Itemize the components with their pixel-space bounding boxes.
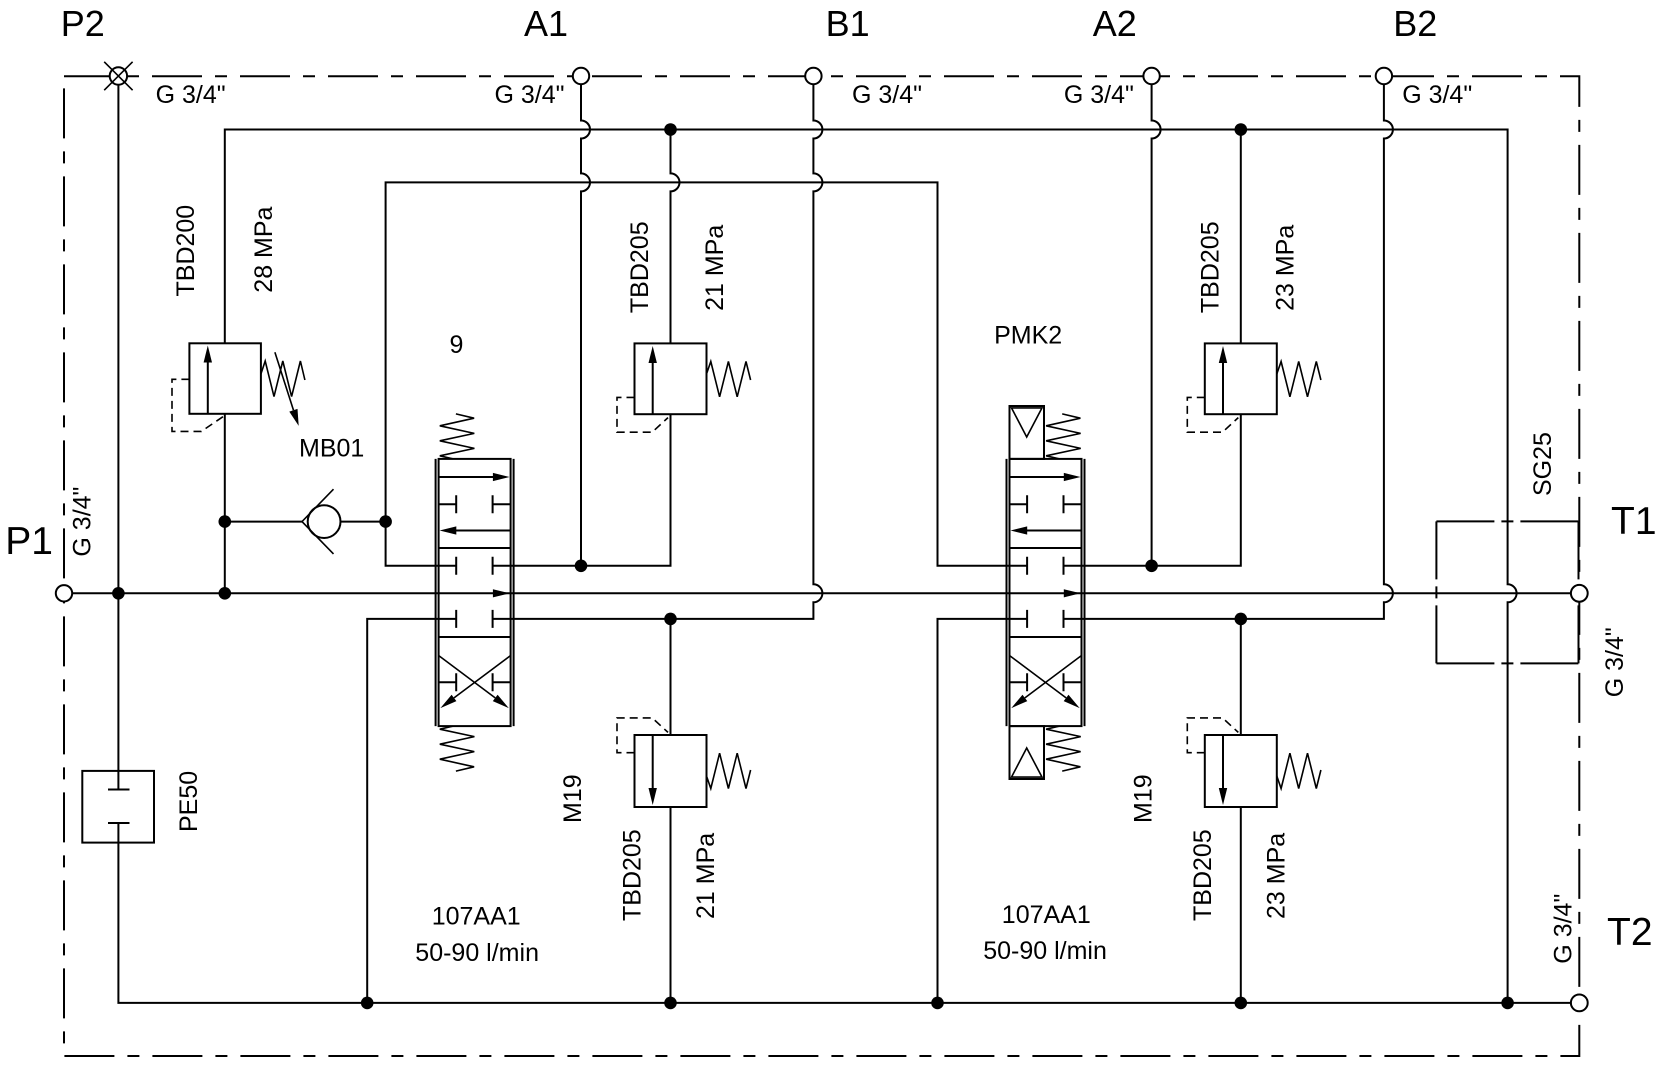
body [439,459,511,726]
wire: port A1 drop line [581,85,590,566]
port P1 [56,585,72,601]
pilot actuator top [1010,406,1045,459]
port A1 [573,68,589,84]
svg-text:TBD205: TBD205 [1189,829,1217,921]
relief valve TBD205 21 MPa M19 (port B1, lower) [617,718,751,807]
port A2 [1143,68,1159,84]
body [1010,459,1082,726]
port T2 [1571,995,1588,1012]
port T1 [1571,585,1588,602]
centring spring bottom [440,726,475,771]
node: TBD200 drop x P1 gallery [219,587,232,600]
node: valve 2 T-return on bottom rail [931,997,944,1010]
gauge block SG25 [1436,521,1578,663]
svg-text:B2: B2 [1393,3,1437,44]
node: lower TBD205 23MPa on bottom rail [1235,997,1248,1010]
position c: crossed flow arrows [1010,656,1082,698]
wire: valve 1 B-port branch to lower TBD205 [670,619,672,735]
relief valve TBD205 23 MPa M19 (port B2, lower) [1187,718,1321,807]
node: TBD205 23MPa outlet on tank rail [1235,123,1248,136]
svg-text:107AA1: 107AA1 [432,902,521,930]
node: lower TBD205 21MPa on bottom rail [664,997,677,1010]
side rails [1007,459,1085,726]
svg-text:G 3/4": G 3/4" [1064,81,1134,109]
wire: TBD205 23MPa outlet riser to tank rail [1240,130,1242,344]
node: valve 2 B-line x lower TBD205 [1235,613,1248,626]
svg-text:28 MPa: 28 MPa [250,206,278,292]
port P2 (plugged) [104,62,132,90]
node: valve 1 B-line x lower TBD205 [664,613,677,626]
wire: feed loop from node to both valve P ports (bridge L2) [386,182,1010,565]
wire: P1 main pressure gallery [73,592,1571,594]
svg-text:107AA1: 107AA1 [1002,901,1091,929]
svg-text:PMK2: PMK2 [994,322,1062,350]
svg-text:TBD200: TBD200 [172,205,200,297]
wire: P2 drop line to PE50 [117,85,119,790]
svg-text:A2: A2 [1093,3,1137,44]
svg-text:G 3/4": G 3/4" [1402,81,1472,109]
svg-text:G 3/4": G 3/4" [1601,627,1629,697]
pilot spring bottom [1046,726,1081,771]
svg-text:P1: P1 [5,520,53,563]
node: TBD205 21MPa outlet on tank rail [664,123,677,136]
svg-text:G 3/4": G 3/4" [852,81,922,109]
relief valve TBD205 23 MPa (port A2) [1187,343,1321,432]
position b (centre): closed ports + bypass arrow [1010,557,1082,575]
relief valve TBD205 21 MPa (port A1) [617,343,751,432]
svg-text:G 3/4": G 3/4" [69,487,97,557]
wire: valve 2 A-port line to TBD205 relief [1082,414,1241,566]
wire: valve 1 A-port line to TBD205 relief [511,414,671,566]
svg-text:T1: T1 [1611,500,1657,543]
svg-text:50-90 l/min: 50-90 l/min [983,937,1107,965]
node: A1 junction on valve 1 A-line [575,560,588,573]
wire: bottom tank rail to T2 [118,823,1570,1003]
svg-text:PE50: PE50 [175,771,203,832]
position a: flow arrows [1010,476,1065,478]
position b (centre): closed ports + bypass arrow [439,557,511,575]
node: P2 line x P1 gallery [112,587,125,600]
svg-text:A1: A1 [524,3,568,44]
position a: flow arrows [439,476,494,478]
wire: port A2 drop line [1152,85,1161,566]
svg-text:B1: B1 [826,3,870,44]
thread size labels [69,81,1630,964]
svg-text:TBD205: TBD205 [626,221,654,313]
wire: tank rail L1 (relief valve outlets) with right drop to bottom rail [225,130,1517,1003]
wire: valve 1 T-return to bottom rail [367,619,438,1003]
svg-text:T2: T2 [1607,911,1653,954]
svg-text:M19: M19 [559,774,587,823]
directional valve 107AA1 no.2 PMK2 [1007,406,1085,779]
wire: port B2 drop line to valve 2 B-port [1082,85,1393,619]
svg-text:M19: M19 [1129,774,1157,823]
centring spring top [440,414,475,459]
wire: lower TBD205 23MPa outlet to bottom rail [1240,807,1242,1003]
wire: check valve MB01 inlet [225,521,302,523]
svg-text:TBD205: TBD205 [1196,221,1224,313]
svg-text:TBD205: TBD205 [619,829,647,921]
wire: check valve MB01 outlet to node [341,521,386,523]
wire: port B1 drop line to valve 1 B-port [511,85,823,619]
svg-text:P2: P2 [61,3,105,44]
svg-text:21 MPa: 21 MPa [692,833,720,919]
wire: lower TBD205 21MPa outlet to bottom rail [670,807,672,1003]
pilot actuator bottom [1010,726,1045,779]
wire: TBD200 outlet drop to P1 line [224,414,226,594]
side rails [436,459,514,726]
svg-text:SG25: SG25 [1529,432,1557,496]
wire: valve 2 B-port branch to lower TBD205 [1240,619,1242,735]
directional valve 107AA1 no.1 [436,414,514,771]
check valve MB01 [302,489,341,554]
relief valve TBD200 28 MPa [172,343,305,431]
node: TBD200 drop x check valve inlet [219,515,232,528]
svg-text:G 3/4": G 3/4" [1550,894,1578,964]
svg-text:23 MPa: 23 MPa [1262,833,1290,919]
position c: crossed flow arrows [439,656,511,698]
svg-text:MB01: MB01 [299,435,364,463]
port B1 [805,68,821,84]
svg-text:G 3/4": G 3/4" [156,81,226,109]
node: A2 junction on valve 2 A-line [1145,560,1158,573]
wire: valve 2 T-return to bottom rail [938,619,1010,1003]
svg-text:G 3/4": G 3/4" [495,81,565,109]
node: check valve outlet feed node [379,515,392,528]
wire: TBD205 21MPa outlet riser to tank rail [671,130,680,344]
port B2 [1376,68,1392,84]
node: valve 1 T-return on bottom rail [361,997,374,1010]
plug PE50 [82,771,154,843]
svg-text:9: 9 [450,331,464,359]
svg-text:50-90 l/min: 50-90 l/min [415,939,539,967]
svg-text:21 MPa: 21 MPa [701,225,729,311]
svg-text:23 MPa: 23 MPa [1271,225,1299,311]
pilot spring top [1046,414,1081,459]
node: tank drop on bottom rail [1501,997,1514,1010]
